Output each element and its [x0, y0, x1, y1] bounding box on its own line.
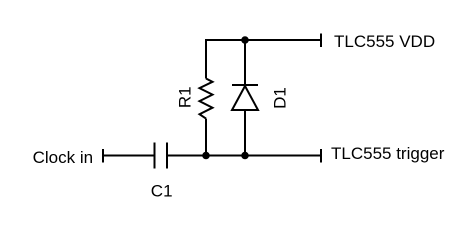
resistor R1 — [200, 79, 213, 119]
wire from Clock in terminal to C1 — [103, 155, 155, 157]
diode D1 (cathode bar + triangle, anode at bottom) — [232, 85, 258, 110]
junction dot at D1 bottom — [241, 152, 249, 160]
svg-text:Clock in: Clock in — [33, 148, 93, 167]
terminal Clock in — [102, 149, 104, 163]
label TLC555 VDD — [334, 32, 435, 51]
wire D1 branch top segment — [244, 40, 246, 85]
svg-text:R1: R1 — [176, 86, 195, 108]
svg-text:TLC555 VDD: TLC555 VDD — [334, 32, 435, 51]
wire from C1 to trigger rail — [167, 155, 321, 157]
wire R1 branch bottom segment — [205, 119, 207, 156]
wire R1 branch top segment — [205, 40, 207, 79]
label C1 — [151, 182, 173, 201]
label Clock in — [33, 148, 93, 167]
label TLC555 trigger — [331, 144, 445, 163]
terminal TLC555 VDD — [320, 34, 322, 48]
capacitor C1 — [155, 143, 168, 169]
label D1 — [271, 87, 290, 109]
svg-text:C1: C1 — [151, 182, 173, 201]
wire D1 branch bottom segment — [244, 110, 246, 156]
svg-text:D1: D1 — [271, 87, 290, 109]
terminal TLC555 trigger — [320, 149, 322, 163]
junction dot at R1 bottom — [202, 152, 210, 160]
wire top rail from R1 corner to VDD terminal — [205, 39, 321, 41]
junction dot at D1 top rail — [241, 36, 249, 44]
label R1 — [176, 86, 195, 108]
svg-text:TLC555 trigger: TLC555 trigger — [331, 144, 445, 163]
